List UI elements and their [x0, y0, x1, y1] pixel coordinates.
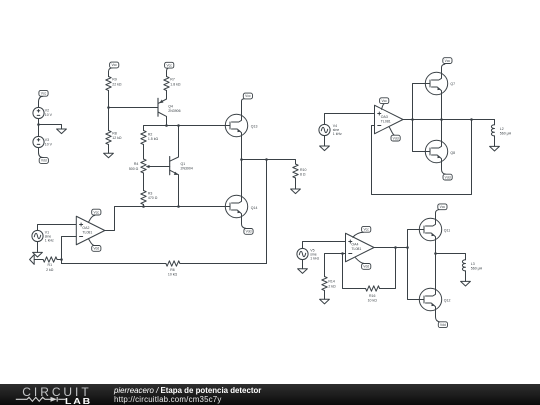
svg-text:Q4: Q4	[168, 104, 173, 108]
svg-text:1 kHz: 1 kHz	[45, 239, 54, 243]
svg-text:Q12: Q12	[444, 299, 451, 303]
svg-text:Vcc: Vcc	[363, 228, 369, 232]
svg-text:Vcc: Vcc	[381, 99, 387, 103]
svg-text:Vdd: Vdd	[246, 230, 252, 234]
svg-text:10 kΩ: 10 kΩ	[368, 299, 378, 303]
svg-text:2N3906: 2N3906	[168, 109, 180, 113]
svg-text:Vcc: Vcc	[445, 59, 451, 63]
svg-text:Vcc: Vcc	[41, 92, 47, 96]
svg-text:TL081: TL081	[82, 231, 92, 235]
svg-text:1 kHz: 1 kHz	[310, 256, 319, 260]
svg-text:Q11: Q11	[444, 229, 450, 233]
svg-text:R14: R14	[328, 280, 334, 284]
svg-text:1.8 kΩ: 1.8 kΩ	[170, 82, 181, 86]
svg-text:R3: R3	[148, 191, 153, 195]
svg-text:Q8: Q8	[450, 151, 455, 155]
svg-text:8 Ω: 8 Ω	[300, 172, 306, 176]
svg-text:22 kΩ: 22 kΩ	[112, 82, 122, 86]
svg-text:Vdd: Vdd	[93, 247, 99, 251]
svg-text:R2: R2	[148, 133, 153, 137]
svg-text:2 kΩ: 2 kΩ	[46, 268, 54, 272]
svg-text:Vcc: Vcc	[94, 210, 100, 214]
svg-text:Vcc: Vcc	[166, 63, 172, 67]
svg-text:Q7: Q7	[450, 82, 455, 86]
svg-text:2N3904: 2N3904	[181, 166, 193, 170]
svg-text:470 Ω: 470 Ω	[148, 196, 158, 200]
svg-text:Vdd: Vdd	[393, 136, 399, 140]
svg-text:10 V: 10 V	[45, 113, 53, 117]
svg-text:500 Ω: 500 Ω	[129, 167, 139, 171]
svg-text:OA3: OA3	[381, 115, 388, 119]
svg-text:R4: R4	[134, 162, 139, 166]
svg-text:1.5 kΩ: 1.5 kΩ	[148, 137, 159, 141]
svg-text:Vcc: Vcc	[111, 63, 117, 67]
svg-text:TL081: TL081	[381, 120, 391, 124]
svg-text:R6: R6	[170, 268, 175, 272]
svg-text:1 kHz: 1 kHz	[333, 132, 342, 136]
svg-text:Q1: Q1	[181, 162, 186, 166]
svg-text:R10: R10	[300, 168, 306, 172]
svg-text:L2: L2	[500, 127, 504, 131]
svg-text:12 kΩ: 12 kΩ	[112, 136, 122, 140]
svg-text:TL081: TL081	[351, 247, 361, 251]
svg-text:R1: R1	[48, 263, 53, 267]
svg-text:Q14: Q14	[251, 206, 258, 210]
svg-text:R7: R7	[170, 78, 175, 82]
svg-text:Vcc: Vcc	[245, 94, 251, 98]
svg-text:R8: R8	[112, 131, 117, 135]
svg-text:Vdd: Vdd	[41, 159, 47, 163]
svg-text:R16: R16	[369, 294, 375, 298]
svg-text:V2: V2	[45, 109, 49, 113]
svg-text:Vcc: Vcc	[440, 205, 446, 209]
svg-text:Q13: Q13	[251, 125, 258, 129]
svg-text:Vdd: Vdd	[363, 265, 369, 269]
svg-text:OA4: OA4	[351, 243, 358, 247]
svg-text:2 kΩ: 2 kΩ	[328, 284, 336, 288]
svg-text:10 V: 10 V	[45, 142, 53, 146]
svg-text:Vdd: Vdd	[440, 323, 446, 327]
svg-text:V3: V3	[45, 138, 49, 142]
svg-text:560 μH: 560 μH	[471, 267, 483, 271]
svg-text:L3: L3	[471, 262, 475, 266]
svg-text:R9: R9	[112, 78, 117, 82]
svg-text:10 kΩ: 10 kΩ	[168, 272, 178, 276]
svg-text:560 μH: 560 μH	[500, 132, 512, 136]
svg-text:OA2: OA2	[82, 226, 89, 230]
svg-text:Vdd: Vdd	[445, 175, 451, 179]
